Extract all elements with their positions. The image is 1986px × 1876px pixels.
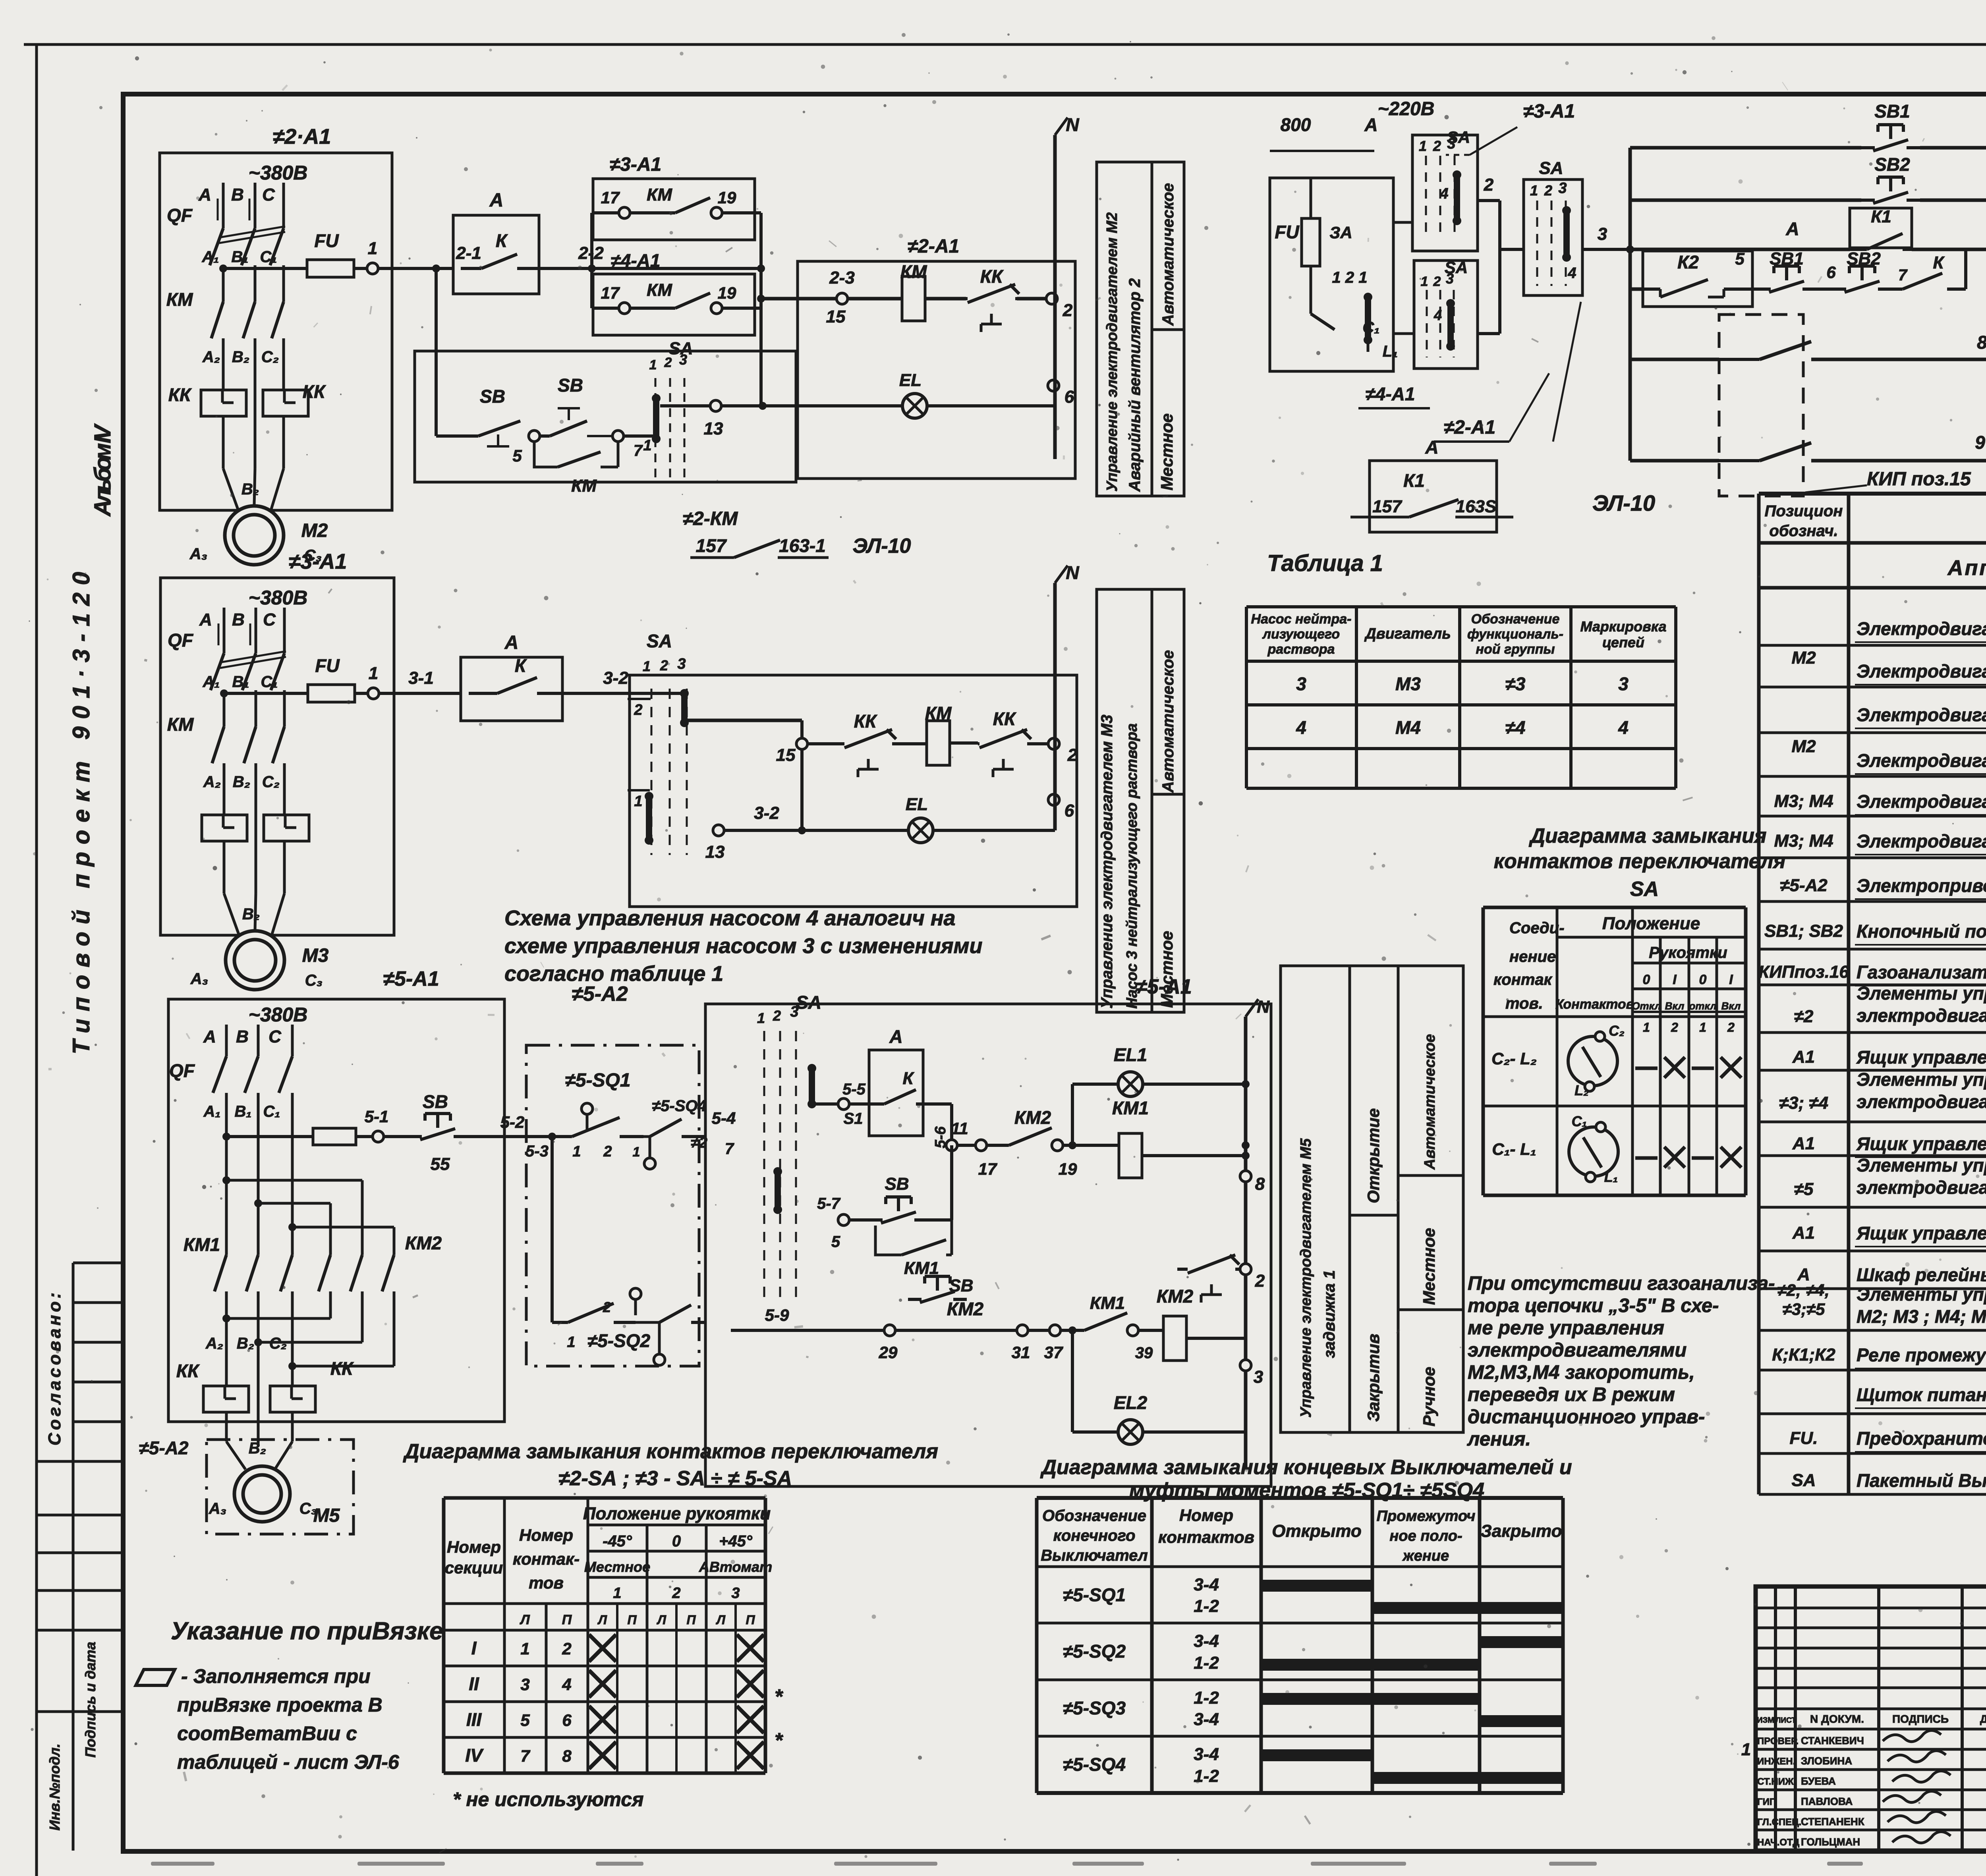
svg-text:Электродвигатель типа АО2-51-6: Электродвигатель типа АО2-51-6; 5,5кВт:~… bbox=[1857, 750, 1986, 771]
svg-text:37: 37 bbox=[1044, 1343, 1063, 1362]
svg-text:лизующего: лизующего bbox=[1262, 627, 1340, 642]
svg-text:Маркировка: Маркировка bbox=[1580, 618, 1666, 635]
svg-text:ПАВЛОВА: ПАВЛОВА bbox=[1801, 1795, 1853, 1807]
svg-text:11: 11 bbox=[951, 1119, 968, 1138]
svg-text:1: 1 bbox=[643, 658, 651, 674]
svg-text:5-3: 5-3 bbox=[525, 1143, 549, 1160]
svg-text:55: 55 bbox=[431, 1154, 450, 1174]
svg-text:0: 0 bbox=[1643, 972, 1650, 987]
svg-text:QF: QF bbox=[167, 205, 193, 226]
svg-text:А: А bbox=[504, 632, 519, 653]
svg-text:Электродвигатель типа АО2-52-6: Электродвигатель типа АО2-52-6 ; 7,5кВт:… bbox=[1857, 661, 1986, 681]
svg-text:6: 6 bbox=[1064, 387, 1074, 407]
svg-text:СТЕПАНЕНК: СТЕПАНЕНК bbox=[1801, 1816, 1864, 1828]
svg-text:≠5-SQ2: ≠5-SQ2 bbox=[1063, 1641, 1126, 1662]
svg-text:КМ: КМ bbox=[167, 714, 194, 735]
svg-text:1: 1 bbox=[572, 1143, 581, 1160]
svg-text:ПРОВЕР.: ПРОВЕР. bbox=[1757, 1736, 1799, 1747]
svg-text:1 2 1: 1 2 1 bbox=[1332, 269, 1368, 286]
svg-text:1: 1 bbox=[633, 1145, 640, 1160]
svg-text:К1: К1 bbox=[1871, 207, 1891, 226]
svg-text:8: 8 bbox=[1255, 1174, 1265, 1194]
svg-text:Контактов: Контактов bbox=[1555, 997, 1634, 1012]
svg-text:Соеди-: Соеди- bbox=[1509, 919, 1565, 937]
svg-text:В: В bbox=[236, 1027, 249, 1046]
svg-text:Ящик управления ЯУ5113-23А2В/Я: Ящик управления ЯУ5113-23А2В/ЯУ-3; АУ-4/ bbox=[1856, 1133, 1986, 1154]
svg-text:2: 2 bbox=[773, 1007, 781, 1024]
svg-text:ПОДПИСЬ: ПОДПИСЬ bbox=[1892, 1713, 1949, 1725]
svg-text:Элементы управления электродви: Элементы управления электродвигателями bbox=[1857, 1284, 1986, 1305]
svg-text:Диаграмма замыкания контактов: Диаграмма замыкания контактов переключат… bbox=[403, 1440, 938, 1463]
svg-text:Л: Л bbox=[657, 1613, 667, 1627]
svg-text:откл: откл bbox=[1689, 1000, 1717, 1012]
svg-text:раствора: раствора bbox=[1267, 642, 1335, 657]
svg-text:К;К1;К2: К;К1;К2 bbox=[1772, 1345, 1835, 1365]
svg-text:3: 3 bbox=[1618, 674, 1629, 694]
svg-text:I: I bbox=[1729, 972, 1733, 987]
svg-text:Откл: Откл bbox=[1632, 1000, 1661, 1012]
svg-text:Ручное: Ручное bbox=[1420, 1367, 1438, 1426]
svg-text:Электродвигатель типа АО2-81-2: Электродвигатель типа АО2-81-2; 40кВт: ~… bbox=[1857, 831, 1986, 851]
svg-text:≠5-А1: ≠5-А1 bbox=[1136, 975, 1192, 998]
svg-text:М3; М4: М3; М4 bbox=[1774, 791, 1833, 811]
svg-text:Электродвигатель типа АО2-42-6: Электродвигатель типа АО2-42-6; 4кВт; ~3… bbox=[1857, 704, 1986, 725]
svg-text:В₁: В₁ bbox=[232, 248, 249, 266]
svg-text:13: 13 bbox=[704, 419, 723, 438]
svg-text:секции: секции bbox=[445, 1558, 503, 1577]
svg-text:≠3-А1: ≠3-А1 bbox=[289, 550, 347, 573]
svg-text:К: К bbox=[902, 1069, 914, 1088]
svg-text:М3: М3 bbox=[1395, 674, 1421, 694]
svg-text:ГЛ.СПЕЦ.: ГЛ.СПЕЦ. bbox=[1757, 1817, 1801, 1828]
svg-text:3: 3 bbox=[520, 1675, 529, 1694]
svg-text:N: N bbox=[1066, 114, 1079, 135]
svg-text:3-4: 3-4 bbox=[1194, 1710, 1219, 1729]
svg-text:Позицион: Позицион bbox=[1765, 502, 1843, 520]
svg-text:Насос нейтра-: Насос нейтра- bbox=[1251, 612, 1352, 627]
svg-text:КМ: КМ bbox=[647, 185, 672, 205]
svg-text:В: В bbox=[231, 185, 244, 205]
svg-text:N ДОКУМ.: N ДОКУМ. bbox=[1810, 1713, 1864, 1725]
svg-text:А1: А1 bbox=[1792, 1223, 1815, 1243]
svg-text:А₃: А₃ bbox=[190, 970, 208, 988]
svg-text:SА: SА bbox=[1791, 1471, 1816, 1490]
svg-text:≠3: ≠3 bbox=[1505, 674, 1526, 694]
svg-text:17: 17 bbox=[601, 188, 620, 207]
svg-text:≠2-КМ: ≠2-КМ bbox=[683, 508, 738, 529]
svg-text:Номер: Номер bbox=[447, 1538, 501, 1556]
svg-text:*: * bbox=[775, 1729, 784, 1752]
svg-text:SВ1: SВ1 bbox=[1874, 101, 1910, 122]
svg-text:А: А bbox=[1364, 114, 1377, 135]
svg-text:15: 15 bbox=[776, 745, 796, 765]
svg-text:контак: контак bbox=[1493, 971, 1553, 988]
svg-text:Л: Л bbox=[519, 1612, 530, 1627]
svg-text:~380В: ~380В bbox=[249, 587, 308, 609]
svg-text:БУЕВА: БУЕВА bbox=[1801, 1775, 1836, 1787]
svg-text:≠5-SQ3: ≠5-SQ3 bbox=[1063, 1698, 1126, 1718]
svg-text:SА: SА bbox=[647, 631, 672, 651]
svg-text:Закрыто: Закрыто bbox=[1481, 1521, 1562, 1541]
svg-text:контактов переключателя: контактов переключателя bbox=[1494, 850, 1786, 873]
svg-text:Обозначение: Обозначение bbox=[1042, 1507, 1146, 1525]
svg-text:~380В: ~380В bbox=[249, 162, 308, 184]
svg-text:SВ2: SВ2 bbox=[1874, 154, 1910, 175]
svg-text:QF: QF bbox=[168, 630, 194, 650]
svg-text:Кнопочный пост управления ПКЕ-: Кнопочный пост управления ПКЕ-222-2У3 bbox=[1857, 921, 1986, 942]
svg-text:ДАТА: ДАТА bbox=[1980, 1713, 1986, 1725]
svg-text:L₁: L₁ bbox=[1604, 1169, 1618, 1185]
svg-text:ной группы: ной группы bbox=[1476, 642, 1555, 657]
svg-text:Таблица 1: Таблица 1 bbox=[1267, 550, 1383, 576]
svg-text:Номер: Номер bbox=[519, 1526, 573, 1544]
svg-text:ме реле управления: ме реле управления bbox=[1468, 1317, 1664, 1339]
svg-text:N: N bbox=[1257, 997, 1270, 1017]
svg-text:Шкаф релейный ШР: Шкаф релейный ШР bbox=[1857, 1264, 1986, 1285]
svg-text:2: 2 bbox=[1484, 175, 1494, 195]
svg-text:С₁: С₁ bbox=[260, 248, 277, 266]
svg-text:нение: нение bbox=[1509, 948, 1556, 965]
svg-text:3-1: 3-1 bbox=[408, 668, 434, 688]
svg-text:КК: КК bbox=[168, 384, 192, 405]
svg-text:Местное: Местное bbox=[584, 1559, 650, 1575]
svg-text:А1: А1 bbox=[1792, 1047, 1815, 1067]
svg-text:2: 2 bbox=[660, 657, 668, 674]
svg-text:1: 1 bbox=[634, 793, 642, 810]
svg-text:Местное: Местное bbox=[1420, 1228, 1438, 1305]
svg-text:≠2·А1: ≠2·А1 bbox=[273, 125, 331, 149]
svg-text:электродвигателем М5: электродвигателем М5 bbox=[1857, 1177, 1986, 1198]
svg-text:7: 7 bbox=[634, 442, 643, 459]
svg-text:9: 9 bbox=[1975, 432, 1985, 453]
svg-text:КМ2: КМ2 bbox=[1157, 1286, 1194, 1307]
svg-text:А: А bbox=[889, 1026, 902, 1047]
svg-text:КК: КК bbox=[330, 1358, 354, 1379]
svg-text:1: 1 bbox=[368, 239, 377, 258]
svg-text:В₂: В₂ bbox=[241, 481, 259, 498]
svg-text:контак-: контак- bbox=[513, 1550, 580, 1568]
svg-text:С₁: С₁ bbox=[261, 673, 278, 691]
svg-text:А₂: А₂ bbox=[203, 773, 221, 791]
svg-text:Положение: Положение bbox=[1602, 914, 1700, 933]
svg-text:При отсутствии газоанализа-: При отсутствии газоанализа- bbox=[1468, 1273, 1775, 1294]
svg-text:I: I bbox=[471, 1638, 477, 1658]
svg-text:М2: М2 bbox=[1791, 648, 1816, 668]
svg-text:2: 2 bbox=[603, 1143, 612, 1160]
svg-text:КМ: КМ bbox=[166, 289, 193, 310]
svg-text:SА: SА bbox=[1447, 128, 1470, 147]
svg-text:Электропривод 87А008 задвижки: Электропривод 87А008 задвижки bbox=[1857, 875, 1986, 896]
svg-text:обознач.: обознач. bbox=[1769, 522, 1838, 540]
svg-text:А: А bbox=[203, 1027, 216, 1046]
svg-text:SА: SА bbox=[668, 339, 693, 358]
svg-text:1: 1 bbox=[1741, 1740, 1751, 1759]
svg-text:Автоматическое: Автоматическое bbox=[1159, 183, 1177, 326]
svg-text:Электродвигатель типа АО2-51-2: Электродвигатель типа АО2-51-2; 10кВт; ~… bbox=[1857, 791, 1986, 812]
svg-text:4: 4 bbox=[562, 1675, 571, 1694]
svg-text:переведя их В режим: переведя их В режим bbox=[1468, 1384, 1675, 1405]
svg-text:S1: S1 bbox=[844, 1110, 863, 1127]
svg-text:Насос 3 нейтрализующего раство: Насос 3 нейтрализующего раствора bbox=[1124, 723, 1140, 1009]
svg-text:2: 2 bbox=[1433, 274, 1441, 289]
svg-text:Вкл: Вкл bbox=[1665, 1000, 1685, 1012]
svg-text:НАЧ.ОТД: НАЧ.ОТД bbox=[1757, 1837, 1799, 1848]
svg-text:5-1: 5-1 bbox=[365, 1107, 389, 1126]
svg-text:2-1: 2-1 bbox=[456, 243, 481, 263]
svg-text:1: 1 bbox=[369, 664, 378, 683]
svg-text:В₂: В₂ bbox=[237, 1335, 254, 1352]
svg-text:ЕL: ЕL bbox=[899, 371, 922, 390]
svg-text:Диаграмма замыкания концевых В: Диаграмма замыкания концевых Выключателе… bbox=[1040, 1456, 1572, 1479]
svg-text:L₂: L₂ bbox=[1575, 1082, 1589, 1098]
svg-text:4: 4 bbox=[1618, 717, 1629, 738]
svg-text:19: 19 bbox=[1059, 1160, 1077, 1178]
svg-text:приВязке проекта В: приВязке проекта В bbox=[177, 1694, 383, 1716]
svg-text:≠3; ≠4: ≠3; ≠4 bbox=[1779, 1093, 1828, 1113]
svg-text:4: 4 bbox=[1296, 717, 1306, 738]
svg-text:5-9: 5-9 bbox=[765, 1306, 789, 1324]
svg-text:Управление электродвигателем М: Управление электродвигателем М3 bbox=[1098, 715, 1116, 1009]
svg-text:А₂: А₂ bbox=[202, 348, 220, 366]
svg-text:4: 4 bbox=[1567, 265, 1576, 282]
svg-text:5-5: 5-5 bbox=[842, 1081, 866, 1098]
svg-text:Выключател: Выключател bbox=[1041, 1547, 1148, 1564]
svg-text:Местное: Местное bbox=[1157, 413, 1176, 490]
svg-text:КИП поз.15: КИП поз.15 bbox=[1867, 469, 1971, 490]
svg-text:SА: SА bbox=[1539, 158, 1563, 178]
svg-text:19: 19 bbox=[718, 188, 736, 207]
svg-text:3: 3 bbox=[1558, 180, 1567, 197]
svg-text:КК: КК bbox=[303, 381, 326, 402]
svg-text:3-4: 3-4 bbox=[1194, 1631, 1219, 1651]
svg-text:С₂: С₂ bbox=[269, 1335, 287, 1352]
svg-text:4: 4 bbox=[1439, 185, 1448, 202]
svg-text:ИЗМ: ИЗМ bbox=[1757, 1716, 1774, 1725]
svg-text:SВ1; SВ2: SВ1; SВ2 bbox=[1764, 921, 1843, 941]
svg-text:800: 800 bbox=[1281, 114, 1311, 135]
svg-text:А: А bbox=[198, 185, 211, 205]
svg-text:FU.: FU. bbox=[1790, 1428, 1818, 1448]
svg-text:ГИП: ГИП bbox=[1757, 1797, 1776, 1807]
svg-text:3-2: 3-2 bbox=[754, 803, 779, 823]
svg-text:≠5-А1: ≠5-А1 bbox=[383, 967, 439, 990]
svg-text:Щиток питания ЭЩПК-3: Щиток питания ЭЩПК-3 bbox=[1857, 1384, 1986, 1405]
svg-text:7: 7 bbox=[520, 1747, 530, 1765]
svg-text:электродвигателями М3;М4: электродвигателями М3;М4 bbox=[1857, 1091, 1986, 1112]
svg-text:Ящик управления ЯУ5113 ▱ /ЯУ-: Ящик управления ЯУ5113 ▱ /ЯУ-2/ bbox=[1856, 1047, 1986, 1067]
svg-text:дистанционного управ-: дистанционного управ- bbox=[1468, 1406, 1705, 1428]
svg-text:А₃: А₃ bbox=[189, 545, 207, 563]
svg-text:I: I bbox=[1673, 972, 1677, 987]
svg-text:А₁: А₁ bbox=[203, 1103, 221, 1120]
svg-text:Элементы управления: Элементы управления bbox=[1857, 1069, 1986, 1090]
svg-text:Автоматическое: Автоматическое bbox=[1159, 650, 1177, 793]
svg-text:8: 8 bbox=[562, 1747, 572, 1765]
svg-text:КК: КК bbox=[854, 711, 877, 731]
svg-text:6: 6 bbox=[1064, 801, 1074, 820]
svg-text:КМ: КМ bbox=[571, 476, 597, 496]
svg-text:5-7: 5-7 bbox=[817, 1195, 841, 1212]
svg-text:1: 1 bbox=[643, 437, 651, 454]
svg-text:3: 3 bbox=[731, 1585, 740, 1602]
svg-text:Инв.№подл.: Инв.№подл. bbox=[46, 1743, 63, 1830]
svg-text:SВ1: SВ1 bbox=[1770, 249, 1804, 268]
svg-text:≠5-SQ2: ≠5-SQ2 bbox=[587, 1330, 651, 1351]
svg-text:ИНЖЕН.: ИНЖЕН. bbox=[1757, 1756, 1795, 1767]
svg-text:2: 2 bbox=[1433, 138, 1441, 154]
svg-text:М4: М4 bbox=[1395, 717, 1421, 738]
svg-text:тов: тов bbox=[529, 1573, 564, 1592]
svg-text:19: 19 bbox=[718, 284, 736, 302]
svg-text:Аварийный вентилятор 2: Аварийный вентилятор 2 bbox=[1126, 278, 1144, 492]
svg-text:П: П bbox=[562, 1612, 572, 1627]
svg-text:* не используются: * не используются bbox=[453, 1788, 644, 1810]
svg-text:Аппаратура по месту: Аппаратура по месту bbox=[1947, 556, 1986, 580]
svg-text:С: С bbox=[262, 185, 275, 205]
svg-text:тора цепочки „3-5" В схе-: тора цепочки „3-5" В схе- bbox=[1468, 1295, 1719, 1316]
svg-text:П: П bbox=[746, 1613, 755, 1627]
svg-text:15: 15 bbox=[826, 307, 846, 326]
svg-text:0: 0 bbox=[672, 1532, 681, 1550]
svg-text:≠2; ≠4;: ≠2; ≠4; bbox=[1777, 1281, 1830, 1299]
svg-text:2: 2 bbox=[1544, 182, 1552, 199]
svg-text:КМ1: КМ1 bbox=[1090, 1293, 1125, 1313]
svg-text:КМ1: КМ1 bbox=[1112, 1098, 1149, 1118]
svg-text:7: 7 bbox=[1898, 266, 1908, 284]
svg-text:Согласовано:: Согласовано: bbox=[45, 1293, 64, 1446]
svg-text:SВ: SВ bbox=[558, 375, 583, 396]
svg-text:3: 3 bbox=[677, 656, 686, 672]
svg-text:К: К bbox=[496, 230, 508, 251]
svg-text:≠2-А1: ≠2-А1 bbox=[1444, 417, 1495, 438]
svg-text:контактов: контактов bbox=[1158, 1528, 1254, 1546]
svg-text:Газоанализатор ФЛ-5501М: Газоанализатор ФЛ-5501М bbox=[1857, 962, 1986, 982]
svg-text:≠3-А1: ≠3-А1 bbox=[610, 154, 661, 175]
svg-text:5: 5 bbox=[512, 446, 522, 465]
svg-text:ЗЛОБИНА: ЗЛОБИНА bbox=[1801, 1755, 1852, 1767]
svg-text:А1: А1 bbox=[1792, 1134, 1815, 1153]
svg-text:*: * bbox=[775, 1685, 784, 1708]
svg-text:тов.: тов. bbox=[1505, 995, 1543, 1012]
svg-text:5: 5 bbox=[831, 1233, 840, 1251]
svg-text:1: 1 bbox=[757, 1010, 765, 1026]
svg-text:1: 1 bbox=[613, 1585, 621, 1602]
svg-text:М3; М4: М3; М4 bbox=[1774, 831, 1833, 851]
svg-text:Открыто: Открыто bbox=[1272, 1521, 1362, 1541]
svg-text:Управление электродвигателем М: Управление электродвигателем М2 bbox=[1104, 212, 1121, 492]
svg-text:2: 2 bbox=[1063, 301, 1073, 320]
svg-text:П: П bbox=[686, 1613, 696, 1627]
svg-text:≠5-SQ1: ≠5-SQ1 bbox=[565, 1070, 630, 1091]
svg-text:КМ: КМ bbox=[900, 261, 927, 282]
svg-text:- Заполняется при: - Заполняется при bbox=[181, 1665, 371, 1687]
svg-text:жение: жение bbox=[1402, 1548, 1449, 1564]
svg-text:≠3-А1: ≠3-А1 bbox=[1523, 101, 1575, 122]
svg-text:1: 1 bbox=[1699, 1020, 1706, 1035]
svg-text:2: 2 bbox=[562, 1639, 571, 1658]
svg-text:В: В bbox=[232, 610, 245, 629]
svg-text:КМ2: КМ2 bbox=[1014, 1107, 1051, 1128]
svg-text:М2; М3 ; М4; М5: М2; М3 ; М4; М5 bbox=[1857, 1306, 1986, 1327]
svg-text:Подпись и дата: Подпись и дата bbox=[82, 1642, 99, 1758]
svg-text:≠5-SQ4: ≠5-SQ4 bbox=[1063, 1754, 1126, 1775]
svg-text:≠5: ≠5 bbox=[1794, 1179, 1814, 1199]
svg-text:FU: FU bbox=[315, 655, 340, 676]
svg-text:ЕL1: ЕL1 bbox=[1114, 1044, 1147, 1065]
svg-text:П: П bbox=[627, 1613, 637, 1627]
svg-text:5: 5 bbox=[1735, 249, 1745, 268]
svg-text:157: 157 bbox=[1372, 497, 1403, 516]
svg-text:≠2-SА ; ≠3 - SА ÷ ≠ 5-SА: ≠2-SА ; ≠3 - SА ÷ ≠ 5-SА bbox=[558, 1467, 792, 1490]
svg-text:Предохранитель ПТ-10плавкая Вс: Предохранитель ПТ-10плавкая Вставка 6А bbox=[1857, 1428, 1986, 1449]
svg-text:163S: 163S bbox=[1456, 497, 1497, 516]
svg-text:3-4: 3-4 bbox=[1194, 1575, 1219, 1594]
svg-text:Двигатель: Двигатель bbox=[1364, 625, 1451, 642]
svg-text:≠5-SQ4: ≠5-SQ4 bbox=[652, 1097, 707, 1115]
svg-text:Автоматическое: Автоматическое bbox=[1422, 1034, 1438, 1170]
svg-text:ное поло-: ное поло- bbox=[1389, 1528, 1462, 1544]
svg-text:Пакетный Выключатель ПВ2-10: Пакетный Выключатель ПВ2-10 bbox=[1857, 1470, 1986, 1491]
svg-text:М2: М2 bbox=[1791, 737, 1816, 756]
svg-text:SВ: SВ bbox=[423, 1091, 448, 1112]
svg-text:КИПпоз.16: КИПпоз.16 bbox=[1758, 962, 1849, 982]
svg-text:С: С bbox=[263, 610, 276, 629]
svg-text:М5: М5 bbox=[313, 1505, 340, 1526]
svg-text:SВ: SВ bbox=[949, 1276, 973, 1295]
svg-text:1: 1 bbox=[1419, 138, 1427, 154]
svg-text:К2: К2 bbox=[1677, 252, 1699, 272]
svg-text:≠4-А1: ≠4-А1 bbox=[611, 250, 661, 271]
svg-text:≠5-SQ1: ≠5-SQ1 bbox=[1063, 1585, 1126, 1605]
svg-text:5: 5 bbox=[520, 1711, 530, 1729]
svg-text:2-3: 2-3 bbox=[829, 268, 855, 288]
svg-text:2: 2 bbox=[1067, 745, 1078, 765]
svg-text:3: 3 bbox=[1254, 1367, 1263, 1387]
svg-text:Положение рукоятки: Положение рукоятки bbox=[583, 1504, 771, 1523]
svg-text:2: 2 bbox=[1727, 1020, 1735, 1035]
svg-text:электродвигателями: электродвигателями bbox=[1468, 1339, 1687, 1361]
svg-text:1: 1 bbox=[1530, 182, 1538, 199]
svg-text:L₁: L₁ bbox=[1383, 343, 1398, 360]
svg-text:ГОЛЬЦМАН: ГОЛЬЦМАН bbox=[1801, 1836, 1860, 1848]
svg-text:цепей: цепей bbox=[1602, 634, 1644, 650]
svg-text:таблицей - лист ЭЛ-6: таблицей - лист ЭЛ-6 bbox=[177, 1751, 400, 1773]
svg-text:Электродвигатель типа АО2-51-6: Электродвигатель типа АО2-51-6; 5,5кВт;~… bbox=[1857, 618, 1986, 639]
svg-text:FU: FU bbox=[314, 230, 339, 251]
svg-text:6: 6 bbox=[562, 1711, 572, 1729]
svg-text:С₁: С₁ bbox=[1572, 1113, 1587, 1129]
svg-text:1-2: 1-2 bbox=[1194, 1653, 1219, 1673]
svg-text:Реле промежуточное РП-25 ; ~22: Реле промежуточное РП-25 ; ~220В bbox=[1857, 1345, 1986, 1365]
svg-text:С₂- L₂: С₂- L₂ bbox=[1491, 1049, 1537, 1068]
svg-text:согласно таблице 1: согласно таблице 1 bbox=[504, 962, 723, 986]
svg-text:Схема управления насосом 4 ана: Схема управления насосом 4 аналогич на bbox=[504, 906, 955, 930]
svg-text:2: 2 bbox=[634, 702, 642, 718]
svg-text:К: К bbox=[515, 655, 527, 676]
svg-text:Обозначение: Обозначение bbox=[1471, 612, 1560, 627]
svg-text:13: 13 bbox=[705, 842, 725, 862]
svg-text:С₂: С₂ bbox=[262, 773, 280, 791]
svg-text:8: 8 bbox=[1977, 332, 1986, 353]
svg-text:КМ1: КМ1 bbox=[184, 1234, 220, 1255]
svg-text:А₁: А₁ bbox=[202, 248, 219, 266]
svg-text:2: 2 bbox=[1255, 1271, 1265, 1291]
svg-text:≠5-А2: ≠5-А2 bbox=[139, 1438, 189, 1458]
svg-text:КМ2: КМ2 bbox=[947, 1299, 984, 1319]
svg-text:≠4-А1: ≠4-А1 bbox=[1366, 384, 1415, 404]
svg-text:1: 1 bbox=[649, 357, 657, 372]
svg-text:КМ: КМ bbox=[925, 703, 952, 724]
